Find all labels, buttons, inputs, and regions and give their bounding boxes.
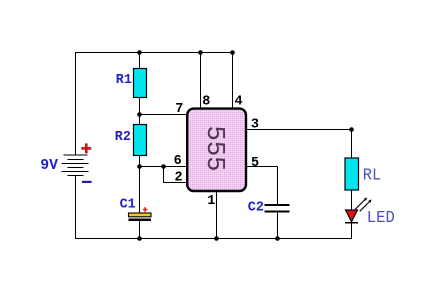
svg-text:9V: 9V (40, 158, 58, 174)
svg-text:2: 2 (175, 171, 183, 186)
svg-text:LED: LED (367, 209, 395, 228)
svg-text:R2: R2 (115, 130, 131, 145)
svg-text:6: 6 (174, 154, 182, 169)
svg-text:4: 4 (235, 94, 243, 109)
svg-text:3: 3 (251, 117, 259, 132)
svg-text:1: 1 (207, 194, 215, 209)
svg-text:RL: RL (363, 166, 382, 185)
svg-text:555: 555 (200, 126, 229, 172)
svg-text:C1: C1 (120, 197, 136, 212)
svg-text:8: 8 (202, 94, 210, 109)
svg-text:R1: R1 (116, 73, 132, 88)
svg-text:5: 5 (251, 156, 259, 171)
svg-text:C2: C2 (248, 201, 264, 216)
svg-text:7: 7 (175, 102, 183, 117)
